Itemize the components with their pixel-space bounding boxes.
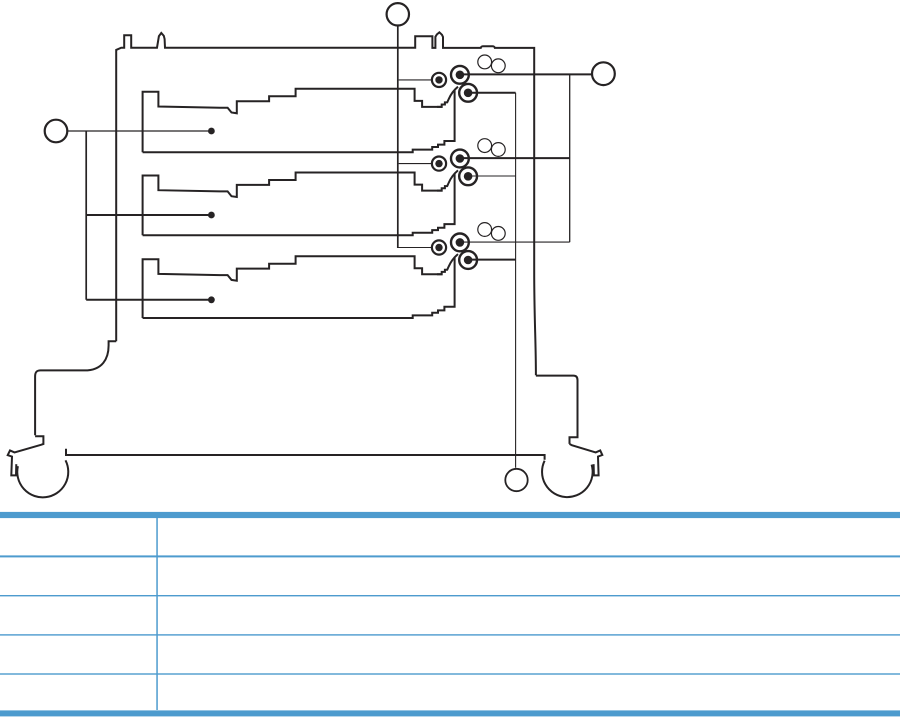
idler circles station 2 [478, 139, 505, 157]
feed leader station 3 [462, 241, 570, 243]
table header separator [0, 555, 900, 557]
idler circles station 3 [478, 223, 505, 241]
separation leader station 3 [470, 259, 516, 261]
feed bracket vertical [569, 74, 571, 242]
separation roller station 2 [459, 167, 477, 185]
branch to tray 2 dot [86, 214, 211, 216]
paper guide curve station 1 [437, 87, 458, 107]
tray dot 2 [208, 212, 215, 219]
idler circles station 1 [478, 55, 505, 73]
table bottom bar [0, 710, 900, 716]
feed leader station 1 [462, 73, 592, 75]
separation leader station 2 [470, 175, 516, 177]
left caster wheel [17, 460, 68, 497]
feed roller station 1 [451, 66, 469, 84]
right caster bracket and lock tab [570, 444, 603, 476]
branch to tray 3 dot [86, 299, 211, 301]
base pedestal left side [35, 341, 116, 435]
pickup branch line station 3 [398, 247, 432, 249]
tray dot 3 [208, 296, 215, 303]
paper guide curve station 2 [437, 170, 458, 190]
pickup roller station 2 [432, 157, 446, 171]
table top bar [0, 512, 900, 518]
separation callout vertical [515, 93, 517, 468]
callout circle right [592, 62, 615, 85]
callout circle left [45, 120, 68, 143]
leader left to tray 1 dot [68, 130, 212, 132]
base pedestal right side [536, 376, 578, 444]
paper guide curve station 3 [437, 254, 458, 274]
tray 2 outline [143, 173, 443, 236]
feed roller station 2 [451, 150, 469, 168]
table row line 3 [0, 673, 900, 674]
left caster bracket and lock tab [8, 436, 44, 475]
table row line 2 [0, 634, 900, 635]
right caster wheel [542, 461, 593, 497]
tray 3 outline [143, 256, 443, 318]
separation leader station 1 [470, 92, 516, 94]
feed leader station 2 [462, 157, 570, 159]
table row line 1 [0, 595, 900, 596]
separation roller station 3 [459, 251, 477, 269]
feed roller station 3 [451, 234, 469, 252]
pickup branch line station 1 [399, 79, 432, 81]
left callout vertical [85, 131, 87, 300]
callout circle top [387, 3, 409, 25]
cabinet outline [116, 32, 536, 375]
base bottom plate [66, 449, 545, 460]
pickup roller station 1 [432, 73, 446, 87]
callout circle bottom [505, 469, 527, 491]
pickup branch line station 2 [399, 163, 432, 165]
separation roller station 1 [459, 84, 477, 102]
table column divider [156, 518, 158, 710]
pickup roller station 3 [432, 240, 446, 254]
tray dot 1 [208, 128, 215, 135]
tray 1 outline [143, 89, 443, 152]
callout leader top vertical [397, 26, 399, 248]
